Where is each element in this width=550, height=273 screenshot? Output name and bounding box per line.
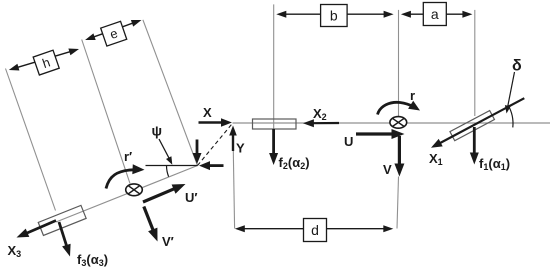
svg-text:V: V — [383, 162, 392, 177]
arrow V (tractor lateral velocity) — [394, 136, 404, 177]
arrow Y (tractor y-axis at hitch) — [229, 126, 237, 152]
svg-text:a: a — [431, 6, 439, 22]
arrow X3 (trailer longitudinal axis) — [17, 221, 57, 238]
trailer tire — [38, 205, 86, 235]
tractor CG symbol (circle with X) — [390, 117, 407, 129]
svg-text:b: b — [330, 8, 338, 24]
extension line from a/b dimensions through tractor CG — [398, 10, 400, 117]
svg-text:U′: U′ — [185, 190, 198, 205]
svg-text:V′: V′ — [162, 234, 174, 249]
arrow X1 (front wheel heading line) — [431, 98, 524, 148]
rear tire (tire 2) — [253, 119, 297, 129]
dimension a — [401, 3, 473, 26]
dimension d — [235, 219, 393, 242]
dimension e — [85, 20, 141, 46]
extension line from h dimension to trailer axle — [6, 69, 56, 211]
extension line from e dimension to hitch junction — [143, 20, 198, 166]
front tire (tire 1) — [450, 111, 495, 141]
arrow f3 (trailer tire force) — [59, 222, 71, 257]
arrow f2 (rear tire force) — [269, 129, 278, 165]
svg-text:ψ: ψ — [152, 123, 163, 139]
tractor centerline (wire) — [233, 122, 550, 124]
svg-text:X: X — [203, 105, 212, 120]
arrow V' (trailer lateral velocity) — [144, 207, 158, 242]
extension line from tractor CG down to d dimension — [397, 177, 399, 229]
extension line from b dimension through rear tire — [273, 4, 275, 129]
svg-text:Y: Y — [236, 141, 245, 156]
curved arrow r (tractor yaw rate) — [378, 101, 421, 115]
psi horizontal reference line — [146, 165, 198, 167]
svg-text:r′: r′ — [124, 149, 132, 164]
junction horizontal arrow (hitch longitudinal force) — [199, 161, 224, 170]
label delta with leader arrow — [505, 58, 522, 114]
arrow U (tractor forward velocity) — [356, 129, 405, 139]
svg-text:U: U — [344, 134, 353, 149]
trailer CG symbol (circle with X) — [126, 184, 143, 196]
extension line from h/e dimensions to trailer CG — [82, 40, 130, 184]
psi angle arc — [167, 166, 169, 177]
svg-text:d: d — [311, 222, 319, 238]
dimension b — [276, 5, 393, 27]
trailer centerline (wire) — [56, 166, 198, 223]
extension line from hitch down to d dimension — [233, 151, 234, 229]
junction vertical arrow (hitch lateral force) — [193, 140, 202, 165]
extension line from a dimension to front tire — [474, 10, 476, 116]
curved arrow r' (trailer yaw rate) — [106, 164, 145, 188]
svg-text:r: r — [410, 88, 415, 103]
arrow X (tractor x-axis at hitch) — [199, 118, 233, 127]
svg-text:δ: δ — [512, 58, 522, 75]
arrow U' (trailer forward velocity) — [143, 184, 186, 202]
label psi with leader arrow — [152, 123, 173, 165]
dashed line from junction to hitch — [198, 125, 232, 166]
arrow X2 (rear axle longitudinal) — [303, 119, 339, 127]
dimension h — [9, 49, 79, 76]
arrow f1 (front tire force) — [470, 127, 479, 165]
delta angle arc — [508, 105, 513, 127]
